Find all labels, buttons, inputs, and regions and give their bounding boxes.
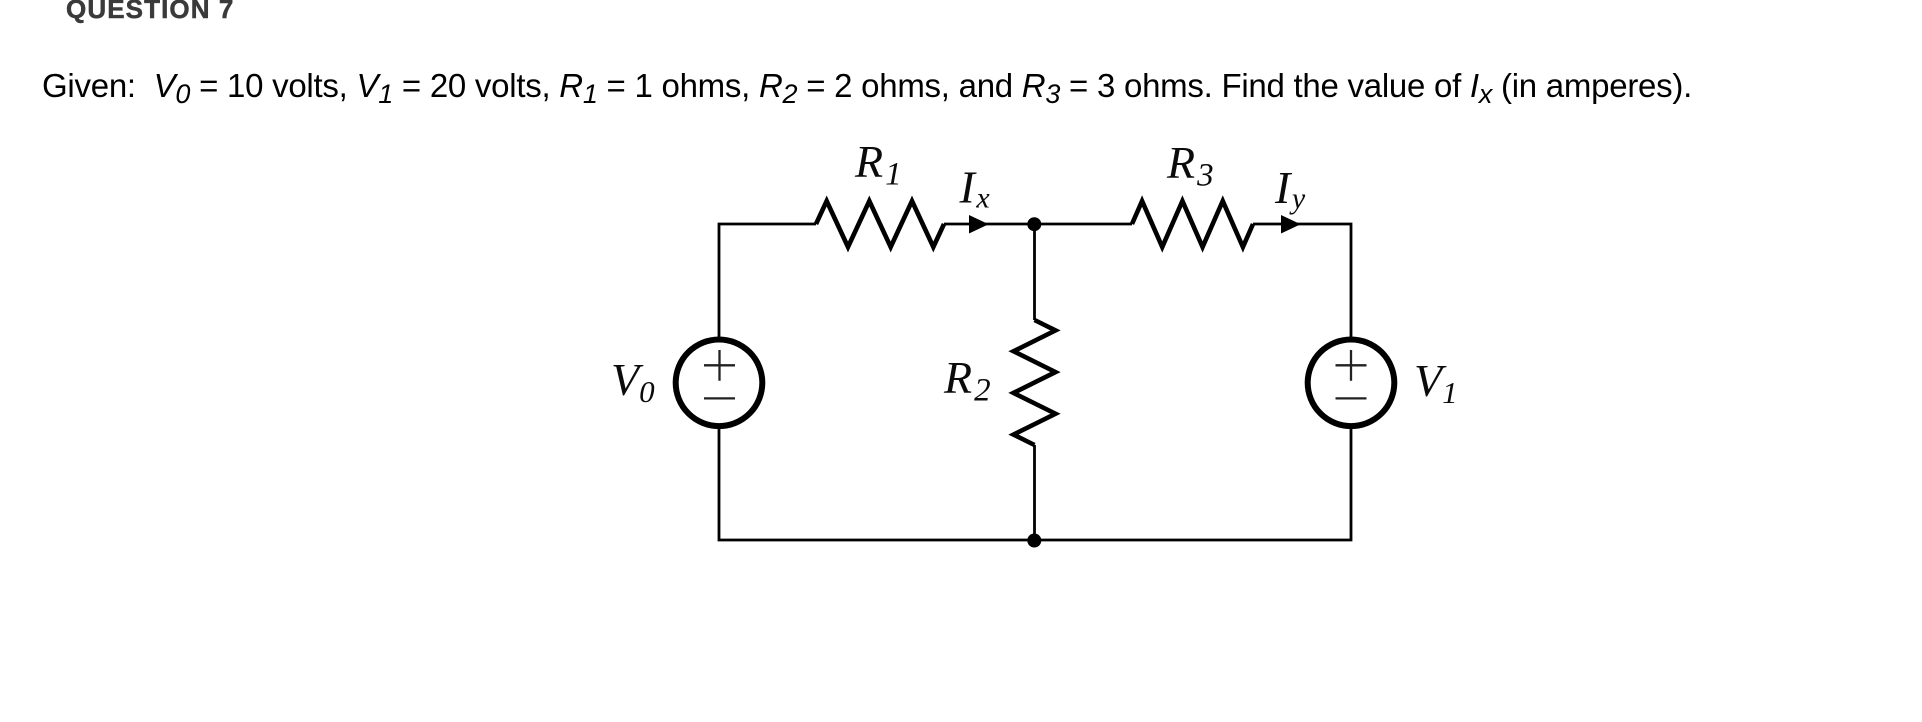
heading QUESTION 7 — [66, 0, 234, 22]
voltage source V0 — [676, 340, 763, 427]
node B (bottom junction dot) — [1027, 534, 1041, 548]
wire: node A down to R2 — [1033, 224, 1036, 320]
problem statement text — [42, 69, 1692, 102]
wire: R1 to node A — [944, 223, 1035, 226]
svg-text:V1: V1 — [1414, 355, 1458, 410]
svg-text:R1: R1 — [854, 136, 902, 193]
svg-text:V0: V0 — [611, 354, 655, 409]
current arrow Iy — [1281, 215, 1301, 234]
V0 plus terminal mark — [704, 350, 735, 381]
svg-text:R2: R2 — [943, 352, 991, 409]
resistor R3 — [1132, 201, 1253, 247]
V1 minus terminal mark — [1336, 397, 1367, 399]
voltage source V1 — [1308, 340, 1395, 427]
node A (top junction dot) — [1027, 217, 1041, 231]
wire: V0 bottom terminal down and across to node B — [719, 428, 1035, 541]
V0 minus terminal mark — [704, 397, 735, 399]
svg-text:R3: R3 — [1166, 137, 1214, 194]
resistor R1 — [816, 201, 944, 247]
current arrow Ix — [969, 215, 989, 234]
resistor R2 — [1014, 320, 1056, 445]
V1 plus terminal mark — [1336, 350, 1367, 381]
wire: node A to R3 — [1035, 223, 1133, 226]
svg-text:Ix: Ix — [959, 162, 991, 215]
wire: R3 across and down to V1 top terminal — [1253, 224, 1351, 338]
wire: V0 top terminal up and across to R1 — [719, 224, 816, 338]
wire: R2 down to node B — [1033, 445, 1036, 540]
svg-text:Iy: Iy — [1274, 162, 1306, 215]
wire: V1 bottom terminal down and across to node B — [1035, 428, 1352, 541]
